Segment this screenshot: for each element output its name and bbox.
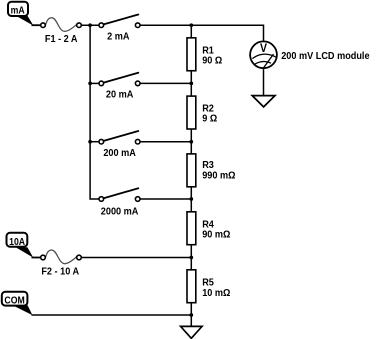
svg-text:F1 - 2 A: F1 - 2 A (45, 34, 78, 46)
svg-text:2 mA: 2 mA (107, 31, 129, 43)
svg-text:90 mΩ: 90 mΩ (202, 229, 230, 241)
svg-text:V: V (260, 43, 268, 56)
svg-text:990 mΩ: 990 mΩ (202, 170, 235, 182)
svg-text:2000 mA: 2000 mA (101, 206, 139, 218)
svg-text:200 mA: 200 mA (103, 147, 136, 159)
svg-text:10A: 10A (9, 236, 25, 247)
svg-text:90 Ω: 90 Ω (202, 55, 222, 67)
svg-text:200 mV LCD module: 200 mV LCD module (281, 50, 370, 62)
svg-text:9 Ω: 9 Ω (202, 113, 217, 125)
svg-text:10 mΩ: 10 mΩ (202, 287, 230, 299)
svg-text:F2 - 10 A: F2 - 10 A (41, 266, 79, 278)
svg-text:COM: COM (4, 295, 25, 306)
svg-text:20 mA: 20 mA (106, 89, 133, 101)
svg-text:mA: mA (11, 5, 25, 16)
